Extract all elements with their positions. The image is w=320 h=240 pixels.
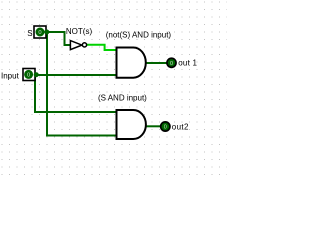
wire NOT output to AND1 upper input (value 1, bright) [87, 45, 116, 50]
input pin S [34, 26, 46, 38]
wire AND2 output to pin out2 [144, 125, 160, 127]
svg-text:out2: out2 [172, 122, 189, 131]
svg-text:0: 0 [38, 30, 41, 36]
svg-text:NOT(s): NOT(s) [66, 27, 93, 36]
AND gate U2 (top) [117, 48, 146, 78]
svg-text:(S AND input): (S AND input) [98, 94, 147, 103]
wire AND1 output to pin out 1 [145, 62, 167, 64]
output pin out2 [160, 121, 171, 132]
svg-text:0: 0 [170, 61, 173, 67]
AND gate U3 (bottom) [117, 110, 146, 139]
input pin Input [23, 69, 35, 81]
svg-text:0: 0 [27, 73, 30, 79]
junction at Input pin output [34, 72, 39, 77]
wire Input to AND1 lower input [36, 74, 116, 76]
output pin out 1 [166, 57, 177, 68]
wire S output to NOT gate elbow [46, 32, 71, 45]
svg-text:Input: Input [1, 71, 20, 80]
svg-text:(not(S) AND input): (not(S) AND input) [106, 30, 172, 39]
svg-text:out 1: out 1 [178, 58, 197, 67]
junction at S pin output [44, 30, 49, 35]
wire Input branch down to AND2 upper input [35, 75, 116, 112]
svg-text:0: 0 [164, 125, 167, 131]
wire S branch down to AND2 lower input [47, 32, 116, 136]
svg-text:S: S [27, 29, 32, 38]
NOT gate U1 [70, 41, 86, 50]
